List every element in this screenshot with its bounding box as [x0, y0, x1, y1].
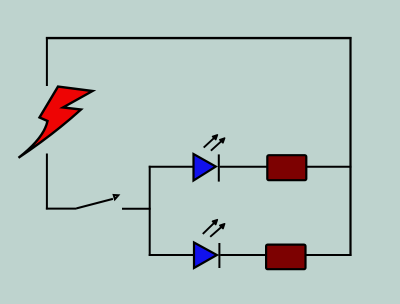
switch S1: left lead	[46, 208, 77, 210]
switch S1: right stub	[122, 208, 151, 210]
wire: top horizontal rail	[46, 37, 352, 39]
wire: branch 2 from bus to LED2	[149, 254, 195, 256]
node: junction vertical bus	[149, 166, 151, 256]
LED D1: emission arrow 1	[204, 135, 218, 148]
wire: LED1 to R1	[220, 166, 268, 168]
wire: LED2 to R2	[220, 254, 267, 256]
resistor R1	[267, 155, 306, 180]
switch S1: arrowhead	[114, 195, 119, 199]
wire: lower left vertical lead from source to switch	[46, 154, 48, 210]
battery / source lightning bolt	[19, 87, 93, 158]
LED D2: triangle	[194, 243, 217, 269]
wire: R1 to right bus	[306, 166, 352, 168]
LED D1: emission arrow 2	[211, 138, 225, 151]
LED D1: cathode bar	[218, 154, 220, 181]
LED D1: triangle	[194, 154, 216, 181]
LED D2: emission arrow 1	[203, 220, 218, 234]
LED D2: cathode bar	[218, 243, 220, 268]
switch S1: lever arm	[77, 199, 113, 209]
LED D2: emission arrow 2	[210, 224, 224, 237]
wire: right vertical rail	[349, 37, 351, 256]
wire: upper left vertical lead from top rail to source	[46, 37, 48, 86]
wire: branch 1 from bus to LED1	[149, 166, 194, 168]
wire: R2 to right bus	[305, 254, 352, 256]
resistor R2	[266, 245, 305, 270]
